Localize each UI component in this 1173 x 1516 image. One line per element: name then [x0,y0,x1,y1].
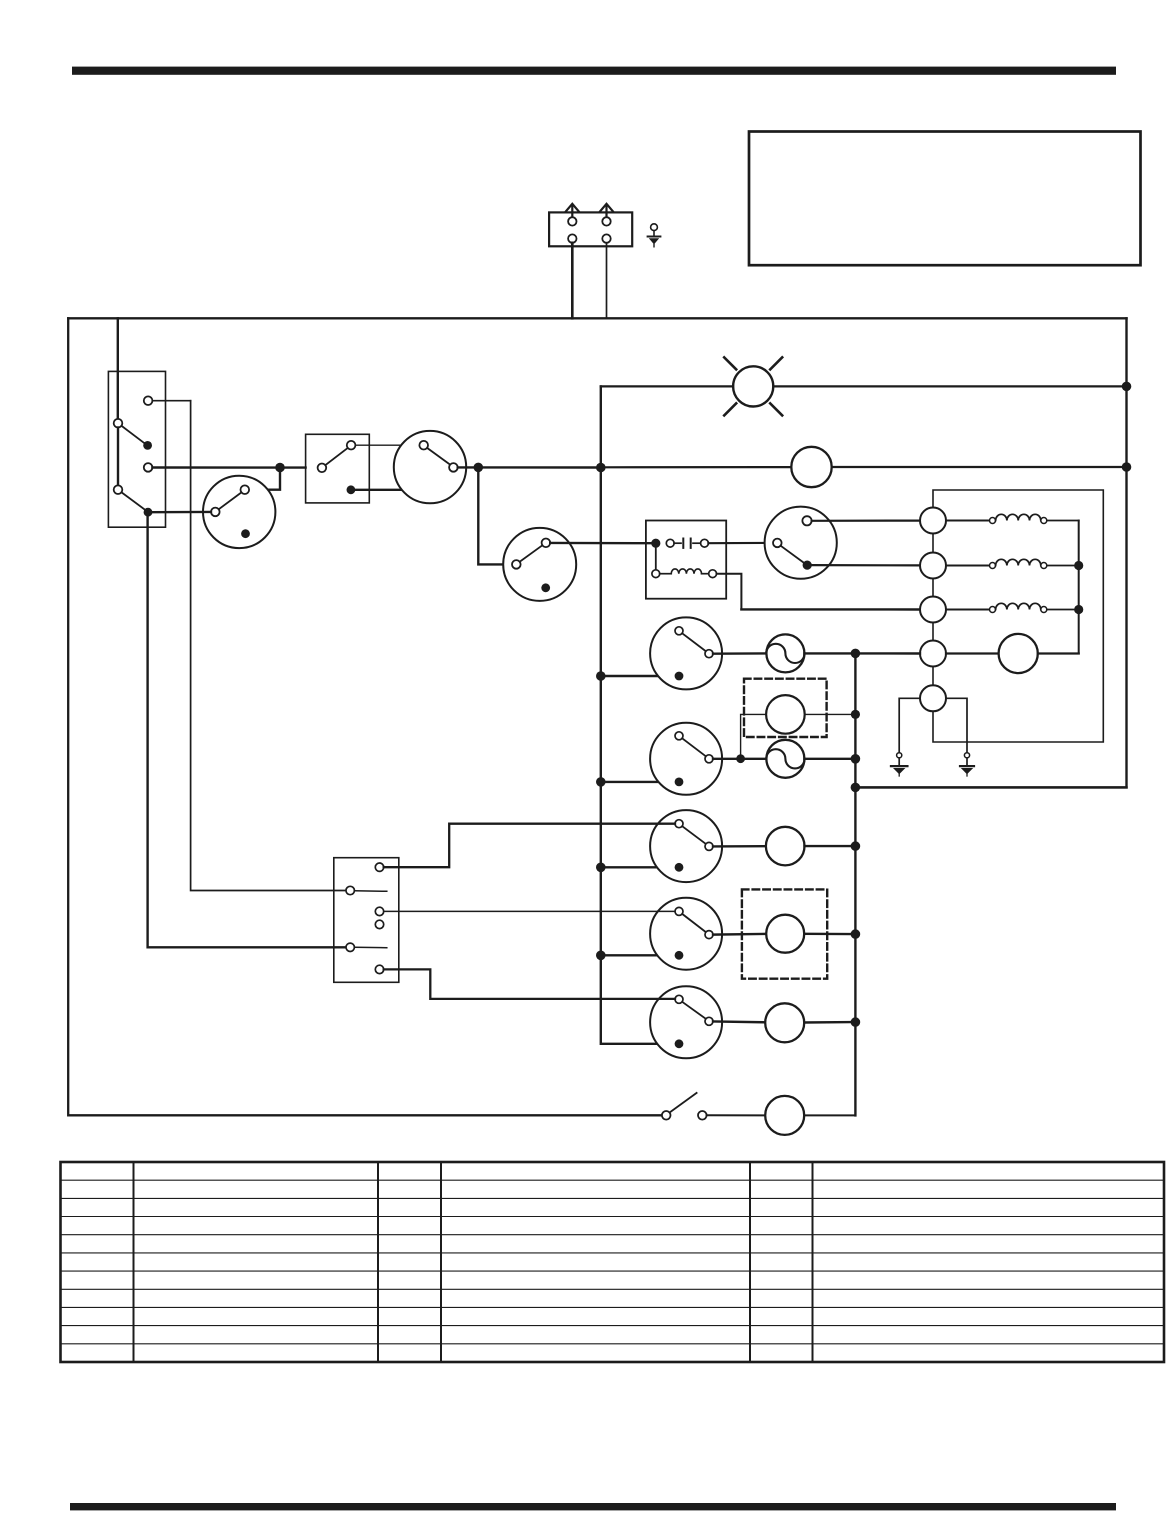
S4 terminal 3 [375,920,383,928]
wire relay feed drop [117,318,119,419]
door switch S6 [662,1111,671,1120]
terminal block TB1 [549,212,632,246]
K1C arm [219,492,242,509]
fuse box F1 [646,521,726,599]
bottom rule bar [70,1503,1116,1510]
top rule bar [72,67,1116,75]
wire L1 drop [571,243,574,318]
wire M1-selector [804,652,920,654]
fuse FU1 [666,539,674,547]
ground G2 [897,753,902,758]
S2 arm [427,448,450,465]
wire top bus [68,317,1126,319]
wire SW5-P5 [713,1020,765,1023]
node J2 [474,463,484,473]
relay circle K2 [765,507,837,579]
wire element link bus [1078,521,1080,654]
relay K1 arm 2 [122,492,145,509]
S1 arm [325,448,347,465]
dashed box DB1 [744,679,827,737]
wire P4-bus [804,933,851,936]
wire left-mid bus [601,386,675,1043]
surface element coil 3 [946,609,989,611]
dashed box DB2 [742,889,827,978]
K2 top contact [802,516,811,525]
load circle P4 [766,915,804,953]
wire bus-to-right link [855,786,1126,788]
node element bus 1 [1074,561,1083,570]
coil E0 (bake element fuse leg) [652,570,660,578]
wire clock row [601,466,792,468]
wire N drop [606,243,608,318]
ground symbol (supply) [651,224,658,231]
wire M2-bus [804,758,850,760]
lamp circle L2 [766,695,805,734]
wire lamp row [601,385,733,387]
load circle P6 [765,1096,804,1135]
wire SW2-M2 [713,758,766,760]
S4 pole b [346,943,354,951]
wire mid-right bus [854,653,856,1115]
F1 inner link [655,548,657,570]
ground G3 [964,753,969,758]
switch circle SW3 [650,810,722,882]
oven lamp DL1 [733,366,773,406]
selector chain contacts [920,508,946,534]
surface element coil 2 [946,565,989,567]
load circle P3 [766,827,805,866]
selector chain box [933,490,1103,742]
S2 contact top [419,441,428,450]
switch circle SW1 [650,617,722,689]
ground wire right [946,698,967,753]
wire bus tap 4 [601,954,675,956]
node right-bus 2 [1122,462,1132,472]
node J1 [275,463,285,473]
ground wire left [899,698,920,753]
switch circle S3 [503,528,576,601]
terminal arrow 2 [605,205,607,217]
relay K1 terminal b [144,463,153,472]
S1-S2 link (thin) [355,444,419,446]
wire P3-bus [805,845,851,847]
node bus-left 5 [596,951,606,961]
wire bus tap 1 [601,675,675,677]
F1 lower exit [717,574,742,610]
K1C contact top [241,485,250,494]
switch box S1 [306,434,370,503]
K2 arm [781,546,804,563]
wire right bus [855,318,1126,787]
motor M1 [766,634,804,672]
F1 output wire [708,542,773,544]
S4 terminal 1 [375,863,383,871]
F1 input node [651,539,660,548]
surface element coil 1 [946,520,989,522]
node bus-left 2 [596,671,606,681]
selector box S4 [334,858,399,983]
node mid-bus 2 [851,710,860,719]
blank info box [749,132,1141,266]
S4 terminal 2 [375,907,383,915]
node mid-bus 3 [851,754,861,764]
wire bus tap 3 [601,866,675,868]
wire SW3-P3 [713,845,766,848]
terminal arrow 1 [571,205,573,217]
node mid-bus 1 [851,649,861,659]
S3 pole [512,560,521,569]
node bus-left 3 [596,777,606,787]
thermostat circle TM1 [946,652,999,654]
wire P6-bus [804,1114,855,1116]
wire left border [68,318,662,1115]
wire SW1-M1 [713,652,766,655]
wire P5-bus [804,1021,851,1024]
S3 arm [520,545,543,562]
S4 pole a [346,886,354,894]
node mid-bus 7 [851,1017,861,1027]
wire to selector c3 [741,608,920,610]
relay K1 pole 1 [114,419,123,428]
K2 pole [773,539,782,548]
contact circle K1C [203,476,275,548]
wire L2 right (thin) [805,713,851,715]
switch circle S2 [394,431,466,503]
S3 output wire [550,542,651,545]
wire SW4-P4 [713,933,766,936]
relay K1 arm 1 [122,426,145,443]
motor M2 [766,740,804,778]
node mid-bus 6 [851,929,861,939]
S4 terminal 4 [375,965,383,973]
K2 moving dot [803,561,812,570]
switch circle SW2 [650,723,722,795]
load circle P5 [765,1003,804,1042]
clock C1 [791,447,831,487]
node mid-bus 4 [851,783,861,793]
switch circle SW4 [650,898,722,970]
K1C spare dot [241,529,250,538]
wire S6-P6 [707,1114,766,1116]
wire heavy riser [148,514,346,947]
relay K1 terminal a [144,396,153,405]
wire bus tap 2 [601,781,675,783]
S1-S2 link (coil side) [347,485,356,494]
node bus-left 4 [596,863,606,873]
node right-bus 1 [1122,382,1132,392]
node mid-bus 5 [851,841,861,851]
legend table (blank) [61,1162,1165,1362]
S2 output contact [449,463,458,472]
relay box K1 [108,371,165,527]
node element bus 2 [1074,605,1083,614]
wire L2 left (thin) [741,714,767,754]
node bus-left 1 [596,463,606,473]
switch circle SW5 [650,986,722,1058]
S1 pole [318,464,327,473]
wire thin riser [191,401,346,891]
S3 spare dot [541,583,550,592]
K1C pole [211,508,220,517]
